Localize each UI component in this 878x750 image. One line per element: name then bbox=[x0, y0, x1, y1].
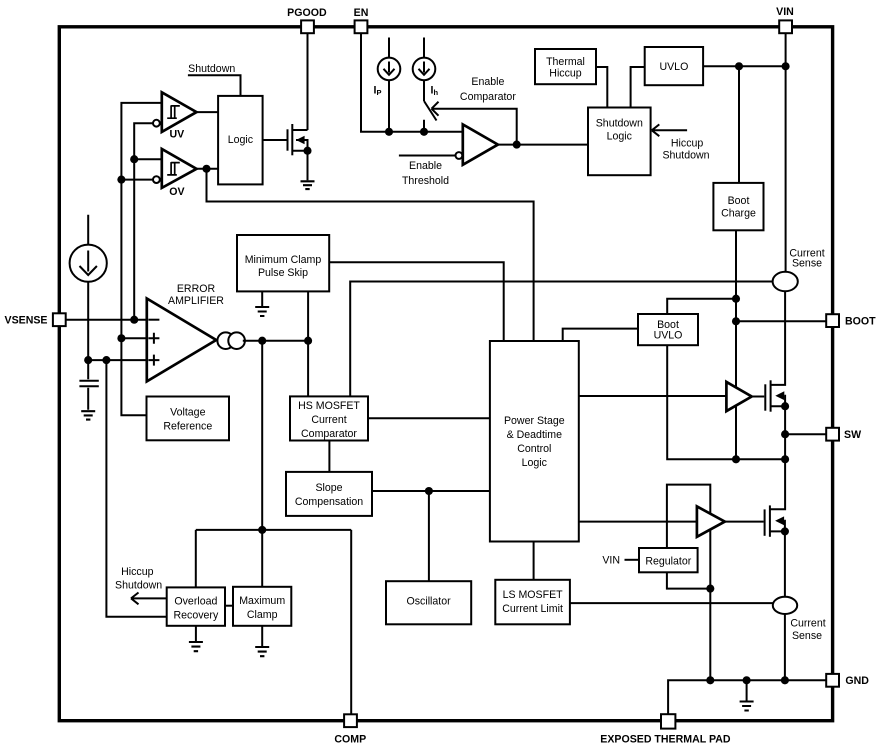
node enable comparator output junction bbox=[513, 141, 521, 149]
box Boot UVLO bbox=[638, 314, 698, 345]
svg-text:COMP: COMP bbox=[334, 734, 366, 746]
svg-text:Comparator: Comparator bbox=[301, 428, 357, 440]
wire UV output to logic bbox=[197, 111, 219, 113]
svg-text:Shutdown: Shutdown bbox=[188, 63, 235, 75]
svg-text:EN: EN bbox=[354, 7, 369, 19]
wire thermal hiccup to shutdown logic bbox=[596, 67, 607, 108]
wire current sense signal to HS comparator bbox=[350, 282, 772, 397]
box Boot Charge bbox=[713, 183, 763, 230]
svg-text:BOOT: BOOT bbox=[845, 315, 876, 327]
current source Ih bbox=[413, 58, 436, 81]
pin EN bbox=[355, 20, 368, 33]
wire UVLO to shutdown logic bbox=[631, 67, 645, 108]
box Voltage Reference bbox=[147, 397, 230, 441]
box Power Stage and Deadtime Control Logic bbox=[490, 341, 579, 542]
box Minimum Clamp Pulse Skip bbox=[237, 235, 329, 291]
node error amp output COMP branch bbox=[258, 337, 266, 345]
wire boot charge rail down bbox=[735, 230, 737, 459]
svg-text:Oscillator: Oscillator bbox=[407, 595, 452, 607]
node EN-Ih junction bbox=[420, 128, 428, 136]
plus sign error amp input2 bbox=[148, 355, 159, 366]
wire maximum clamp ground stub bbox=[261, 626, 263, 646]
wire Ip source drop bbox=[388, 38, 390, 132]
wire HS comparator output to power stage bbox=[368, 417, 490, 419]
pin SW bbox=[826, 428, 839, 441]
ground maximum clamp bbox=[255, 647, 269, 656]
node boot UVLO sense junction bbox=[732, 295, 740, 303]
node regulator rail junction bbox=[706, 585, 714, 593]
box Regulator bbox=[639, 548, 698, 572]
plus sign error amp input1 bbox=[148, 333, 159, 344]
ground GND net bbox=[740, 702, 754, 711]
svg-text:IP: IP bbox=[374, 84, 382, 97]
node EN-Ip junction bbox=[385, 128, 393, 136]
svg-text:VSENSE: VSENSE bbox=[5, 315, 48, 327]
wire UV bubble line B down to VSENSE net bbox=[134, 123, 153, 320]
wire VIN rail to HS drain bbox=[771, 291, 786, 385]
svg-text:GND: GND bbox=[845, 675, 869, 687]
wire OV bubble to line A bbox=[121, 179, 152, 181]
svg-text:Boot: Boot bbox=[728, 195, 750, 207]
svg-text:Enable: Enable bbox=[409, 160, 442, 172]
wire LS current limit to current sense bbox=[570, 602, 773, 604]
wire COMP net horizontal bbox=[196, 529, 351, 531]
wire HS driver to gate bbox=[752, 396, 765, 398]
pin VSENSE bbox=[53, 313, 66, 326]
wire current sense to GND net bbox=[784, 614, 786, 680]
transistor PGOOD MOSFET bbox=[288, 124, 308, 155]
node VSENSE feedback junction bbox=[130, 316, 138, 324]
box Maximum Clamp bbox=[233, 587, 291, 626]
wire maximum clamp riser bbox=[261, 530, 263, 587]
svg-text:Compensation: Compensation bbox=[295, 496, 363, 508]
node GND net regulator junction bbox=[706, 676, 714, 684]
inverting bubble enable comparator bbox=[456, 152, 463, 159]
wire ground stub on GND net bbox=[746, 680, 748, 700]
wire minimum clamp ground stub bbox=[261, 291, 263, 306]
switch blade and contact bbox=[424, 101, 437, 132]
svg-text:SW: SW bbox=[844, 429, 861, 441]
wire boot UVLO bottom to SW node bbox=[667, 345, 785, 459]
node line B OV tap bbox=[130, 155, 138, 163]
svg-text:Thermal: Thermal bbox=[546, 56, 585, 68]
svg-text:& Deadtime: & Deadtime bbox=[507, 429, 562, 441]
box Shutdown Logic bbox=[588, 108, 651, 176]
svg-text:Voltage: Voltage bbox=[170, 406, 205, 418]
wire voltage reference up-feed bbox=[121, 338, 146, 415]
wire VIN rail upper bbox=[785, 33, 787, 272]
wire oscillator riser bbox=[428, 491, 430, 581]
svg-text:UV: UV bbox=[170, 129, 185, 141]
wire branch to overload recovery bbox=[106, 360, 166, 617]
pin EXPOSED THERMAL PAD bbox=[661, 714, 675, 728]
node SW rail boot junction bbox=[781, 455, 789, 463]
svg-text:Charge: Charge bbox=[721, 207, 756, 219]
svg-text:Slope: Slope bbox=[315, 482, 342, 494]
box Oscillator bbox=[386, 581, 471, 624]
current source Ip bbox=[378, 58, 401, 81]
svg-text:Logic: Logic bbox=[607, 131, 633, 143]
wire shutdown into logic box bbox=[188, 75, 241, 96]
hysteresis glyph UV bbox=[167, 105, 180, 118]
wire VIN label stub bbox=[625, 559, 640, 561]
capacitor soft start bbox=[79, 360, 98, 410]
wire BOOT pin line bbox=[736, 320, 826, 322]
wire OV top input from line B bbox=[134, 158, 162, 160]
svg-text:VIN: VIN bbox=[776, 6, 794, 18]
wire Ih source drop bbox=[423, 38, 425, 102]
wire slope compensation output bbox=[372, 490, 490, 492]
box UVLO bbox=[645, 47, 703, 85]
node boot rail SW junction bbox=[732, 455, 740, 463]
ground minimum clamp bbox=[255, 307, 269, 316]
svg-text:OV: OV bbox=[169, 186, 184, 198]
comparator OV bbox=[162, 149, 197, 188]
wire boot UVLO top sense to boot rail bbox=[667, 299, 736, 314]
node HS source junction bbox=[781, 402, 789, 410]
svg-text:Logic: Logic bbox=[522, 457, 548, 469]
wire VSENSE input line bbox=[66, 319, 147, 321]
ground overload recovery bbox=[189, 642, 203, 651]
svg-text:Clamp: Clamp bbox=[247, 609, 278, 621]
wire error amp plus2 input bbox=[88, 359, 147, 361]
wire hiccup shutdown arrow into shutdown logic bbox=[652, 124, 687, 136]
pin BOOT bbox=[826, 314, 839, 327]
wire UV reference line A bbox=[121, 103, 161, 338]
wire enable comparator output to shutdown logic bbox=[498, 144, 588, 146]
box LS MOSFET Current Limit bbox=[495, 580, 570, 625]
node SW pin junction bbox=[781, 430, 789, 438]
wire HS comparator to slope compensation bbox=[328, 441, 330, 472]
svg-text:ERROR: ERROR bbox=[177, 283, 216, 295]
svg-text:Reference: Reference bbox=[163, 420, 212, 432]
wire PGOOD rail bbox=[307, 33, 309, 130]
wire power stage to LS current limit bbox=[533, 542, 535, 580]
svg-text:VIN: VIN bbox=[602, 555, 620, 567]
node EN threshold comparator input bbox=[399, 155, 455, 157]
ground soft start capacitor bbox=[81, 411, 95, 419]
transistor HS MOSFET bbox=[765, 380, 785, 411]
wire minimum clamp output to power stage bbox=[329, 262, 504, 341]
logic box bbox=[218, 96, 263, 184]
op-amp enable comparator bbox=[463, 124, 498, 164]
svg-text:Control: Control bbox=[517, 443, 551, 455]
svg-text:Recovery: Recovery bbox=[174, 610, 219, 622]
node slope comp oscillator junction bbox=[425, 487, 433, 495]
wire overload recovery riser bbox=[195, 530, 197, 588]
node OV output junction bbox=[202, 165, 210, 173]
svg-text:Threshold: Threshold bbox=[402, 175, 449, 187]
node line A OV tap bbox=[117, 176, 125, 184]
node COMP net max clamp junction bbox=[258, 526, 266, 534]
svg-text:Pulse Skip: Pulse Skip bbox=[258, 267, 308, 279]
gm output symbol circle1 bbox=[217, 332, 234, 349]
box HS MOSFET Current Comparator bbox=[290, 396, 368, 440]
svg-text:Shutdown: Shutdown bbox=[596, 118, 643, 130]
driver HS gate driver bbox=[726, 382, 751, 411]
node LS source junction bbox=[781, 527, 789, 535]
wire EN rail to enable comparator bbox=[361, 33, 463, 132]
svg-text:Maximum: Maximum bbox=[239, 595, 285, 607]
wire logic output to pgood mosfet gate bbox=[263, 139, 287, 141]
ground pgood mosfet bbox=[301, 181, 315, 189]
wire switch control from comparator output with arrowhead bbox=[432, 102, 517, 145]
node reference plus1 junction bbox=[117, 334, 125, 342]
svg-text:AMPLIFIER: AMPLIFIER bbox=[168, 295, 224, 307]
transistor LS MOSFET bbox=[765, 505, 785, 536]
wire SW rail bbox=[770, 406, 785, 509]
pin COMP bbox=[344, 714, 357, 727]
wire boot charge feed from UVLO node bbox=[738, 66, 740, 183]
svg-text:Ih: Ih bbox=[431, 84, 439, 97]
wire power stage HS drive output bbox=[579, 395, 727, 397]
op-amp U1 error amplifier bbox=[147, 299, 216, 382]
svg-text:UVLO: UVLO bbox=[659, 61, 688, 73]
wire UVLO sense from VIN rail bbox=[703, 65, 786, 67]
svg-text:Hiccup: Hiccup bbox=[671, 137, 703, 149]
svg-text:Shutdown: Shutdown bbox=[662, 150, 709, 162]
node pgood mosfet source junction bbox=[303, 147, 311, 155]
current sense element HS bbox=[773, 272, 798, 291]
svg-text:Power Stage: Power Stage bbox=[504, 415, 565, 427]
svg-text:Sense: Sense bbox=[792, 630, 822, 642]
gm output symbol circle2 bbox=[228, 332, 245, 349]
box Overload Recovery bbox=[167, 587, 225, 625]
pin GND bbox=[826, 674, 839, 687]
box Slope Compensation bbox=[286, 472, 372, 516]
svg-text:Current: Current bbox=[311, 414, 346, 426]
wire COMP branch down bbox=[261, 341, 263, 530]
svg-text:Logic: Logic bbox=[228, 134, 254, 146]
wire error amp plus1 input from reference bbox=[121, 337, 146, 339]
minus sign error amp bbox=[148, 319, 159, 321]
svg-text:Sense: Sense bbox=[792, 257, 822, 269]
wire error amp output node bbox=[243, 340, 308, 342]
wire min clamp riser to HS comparator bbox=[307, 291, 309, 396]
node GND net ground junction bbox=[743, 676, 751, 684]
svg-text:HS MOSFET: HS MOSFET bbox=[298, 400, 360, 412]
wire GND net bbox=[668, 680, 826, 714]
wire boot UVLO left output to power stage bbox=[563, 329, 638, 341]
wire hiccup shutdown arrow out of overload recovery bbox=[131, 593, 167, 605]
wire power stage LS drive output bbox=[579, 521, 697, 523]
svg-text:Minimum Clamp: Minimum Clamp bbox=[245, 254, 322, 266]
current source soft start bbox=[70, 245, 107, 282]
box Thermal Hiccup bbox=[535, 49, 596, 84]
wire LS source to current sense bbox=[784, 531, 786, 596]
svg-text:Regulator: Regulator bbox=[645, 555, 691, 567]
svg-text:Overload: Overload bbox=[174, 596, 217, 608]
wire SW pin line bbox=[785, 433, 826, 435]
svg-text:UVLO: UVLO bbox=[654, 330, 683, 342]
wire regulator supply loop bbox=[667, 485, 710, 681]
node GND net SW rail junction bbox=[781, 676, 789, 684]
wire overload to maximum clamp link bbox=[225, 605, 233, 607]
node error amp output min clamp junction bbox=[304, 337, 312, 345]
svg-text:Enable: Enable bbox=[471, 76, 504, 88]
inverting bubble OV bbox=[153, 176, 160, 183]
svg-text:Current: Current bbox=[790, 618, 825, 630]
driver LS gate driver bbox=[697, 506, 725, 536]
svg-text:Hiccup: Hiccup bbox=[549, 67, 581, 79]
pin VIN bbox=[779, 20, 792, 33]
svg-text:Shutdown: Shutdown bbox=[115, 580, 162, 592]
wire COMP pin drop bbox=[350, 530, 352, 714]
hysteresis glyph OV bbox=[167, 162, 180, 175]
svg-text:LS MOSFET: LS MOSFET bbox=[503, 589, 564, 601]
wire left current source drop bbox=[87, 215, 89, 360]
svg-text:Hiccup: Hiccup bbox=[121, 566, 153, 578]
svg-text:Comparator: Comparator bbox=[460, 91, 516, 103]
node soft start plus2 junction bbox=[84, 356, 92, 364]
svg-text:PGOOD: PGOOD bbox=[287, 7, 327, 19]
wire pgood mosfet source to ground bbox=[307, 151, 309, 181]
node UVLO boot charge junction bbox=[735, 62, 743, 70]
wire OV output to logic and power stage bbox=[197, 169, 534, 341]
comparator UV bbox=[162, 92, 197, 132]
wire overload recovery ground stub bbox=[195, 626, 197, 641]
node UVLO VIN junction bbox=[782, 62, 790, 70]
pin PGOOD bbox=[301, 20, 314, 33]
node overload branch junction bbox=[102, 356, 110, 364]
svg-text:EXPOSED THERMAL PAD: EXPOSED THERMAL PAD bbox=[600, 734, 731, 746]
inverting bubble UV bbox=[153, 120, 160, 127]
svg-text:Current Limit: Current Limit bbox=[502, 603, 563, 615]
node BOOT pin junction bbox=[732, 317, 740, 325]
current sense element LS bbox=[773, 597, 797, 614]
wire LS driver to gate bbox=[725, 521, 764, 523]
